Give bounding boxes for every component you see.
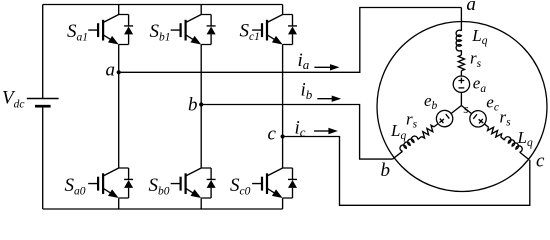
inductor Lq (phase b) (399, 135, 419, 152)
wire: leg c top (rail corner to Sc1) (282, 5, 284, 15)
node a junction dot (117, 70, 121, 74)
svg-text:ic: ic (295, 118, 306, 140)
current arrow ic (314, 128, 338, 134)
wire: phase c output (283, 137, 530, 206)
svg-text:s: s (464, 101, 469, 116)
svg-text:a: a (106, 60, 116, 81)
svg-text:a: a (466, 0, 476, 15)
wire: leg c middle (Sc1 to Sc0 through node c) (282, 45, 284, 169)
wire: leg b middle (Sb1 to Sb0 through node b) (200, 45, 202, 169)
IGBT switch Sc0 with antiparallel diode (252, 168, 297, 198)
battery Vdc negative plate (35, 105, 51, 108)
wire: leg a middle (Sa1 to Sa0 through node a) (118, 45, 120, 169)
IGBT switch Sa0 with antiparallel diode (88, 168, 133, 198)
inductor Lq (phase a) (456, 30, 461, 51)
svg-text:Lq: Lq (471, 26, 487, 47)
wire: left rail upper (Vdc positive lead) (42, 5, 44, 99)
phase a stator branch (Lq, rs, ea) (453, 8, 469, 106)
eb plus mark (438, 117, 446, 125)
wire: leg c bottom (Sc0 to rail) (282, 198, 284, 209)
IGBT switch Sb1 with antiparallel diode (171, 15, 216, 45)
svg-text:Sb1: Sb1 (150, 21, 171, 43)
EMF source eb (433, 107, 456, 130)
wire: bottom DC rail (43, 208, 283, 210)
wire: phase b output (201, 105, 392, 160)
wire: top DC rail (43, 4, 283, 6)
wire: leg a bottom (Sa0 to rail) (118, 198, 120, 209)
svg-text:rs: rs (470, 49, 482, 70)
IGBT switch Sb0 with antiparallel diode (171, 168, 216, 198)
ec plus mark (477, 117, 485, 125)
ec minus mark (473, 114, 477, 119)
resistor rs (phase a) (458, 55, 464, 71)
svg-text:ea: ea (473, 74, 487, 95)
phase c stator branch (ec, rs, Lq) (456, 99, 534, 166)
phase b stator branch (eb, rs, Lq) (387, 99, 466, 166)
EMF source ec (466, 107, 489, 130)
wire: leg b top (rail to Sb1) (200, 5, 202, 15)
resistor rs (phase c) (487, 125, 503, 140)
EMF source ea (453, 76, 469, 92)
ea plus mark (459, 78, 465, 84)
svg-text:ec: ec (486, 93, 499, 114)
node c junction dot (281, 134, 285, 138)
svg-text:c: c (268, 124, 277, 145)
svg-text:Sa1: Sa1 (67, 21, 88, 43)
wire: leg b bottom (Sb0 to rail) (200, 198, 202, 209)
svg-text:Sb0: Sb0 (149, 175, 170, 197)
svg-text:Lq: Lq (390, 121, 406, 142)
svg-text:Vdc: Vdc (2, 88, 24, 111)
eb minus mark (446, 114, 450, 119)
current arrow ib (317, 96, 341, 102)
wire: junction to ec (461, 106, 529, 160)
svg-text:rs: rs (406, 110, 418, 131)
svg-text:ib: ib (301, 80, 313, 102)
svg-text:Sc1: Sc1 (240, 21, 260, 43)
IGBT switch Sc1 with antiparallel diode (252, 15, 297, 45)
svg-text:eb: eb (424, 91, 438, 112)
wire: leg a top (rail to Sa1) (118, 5, 120, 15)
node b junction dot (199, 102, 203, 106)
svg-text:b: b (188, 94, 198, 115)
svg-text:rs: rs (500, 107, 512, 128)
svg-text:Sa0: Sa0 (65, 175, 86, 197)
svg-text:Sc0: Sc0 (230, 175, 251, 197)
IGBT switch Sa1 with antiparallel diode (88, 15, 133, 45)
svg-text:b: b (381, 160, 391, 181)
battery Vdc positive plate (27, 98, 59, 100)
resistor rs (phase b) (420, 124, 436, 139)
wire: junction to eb (392, 106, 461, 160)
ea minus mark (459, 87, 465, 89)
svg-text:c: c (536, 151, 545, 172)
inductor Lq (phase c) (504, 135, 524, 152)
wire: junction to ea (460, 8, 462, 106)
wire: phase a output (119, 8, 462, 73)
motor stator circle (377, 22, 547, 192)
current arrow ia (314, 64, 339, 70)
wire: left rail lower (Vdc negative lead) (42, 106, 44, 209)
svg-text:ia: ia (298, 50, 310, 72)
svg-text:Lq: Lq (517, 128, 533, 149)
